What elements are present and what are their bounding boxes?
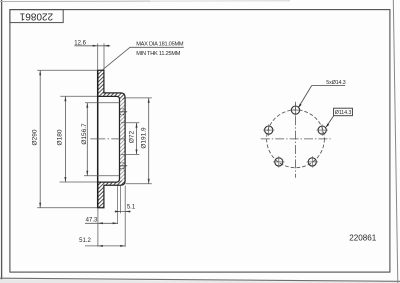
svg-text:12.6: 12.6 bbox=[74, 41, 86, 47]
svg-text:220861: 220861 bbox=[19, 11, 53, 22]
svg-text:47.3: 47.3 bbox=[86, 217, 98, 223]
svg-text:Ø180: Ø180 bbox=[56, 129, 63, 145]
svg-text:220861: 220861 bbox=[349, 233, 377, 242]
svg-text:MIN THK 11.25MM: MIN THK 11.25MM bbox=[136, 51, 181, 57]
svg-text:Ø72: Ø72 bbox=[128, 130, 135, 143]
svg-text:Ø156.7: Ø156.7 bbox=[81, 123, 88, 145]
svg-text:Ø290: Ø290 bbox=[31, 129, 38, 145]
svg-text:MAX DIA 181.05MM: MAX DIA 181.05MM bbox=[136, 42, 184, 48]
svg-text:5.1: 5.1 bbox=[127, 204, 136, 210]
svg-text:Ø114.3: Ø114.3 bbox=[335, 110, 352, 116]
svg-text:Ø191.9: Ø191.9 bbox=[140, 127, 147, 149]
svg-text:5xØ14.3: 5xØ14.3 bbox=[326, 80, 345, 86]
svg-text:51.2: 51.2 bbox=[79, 238, 91, 244]
